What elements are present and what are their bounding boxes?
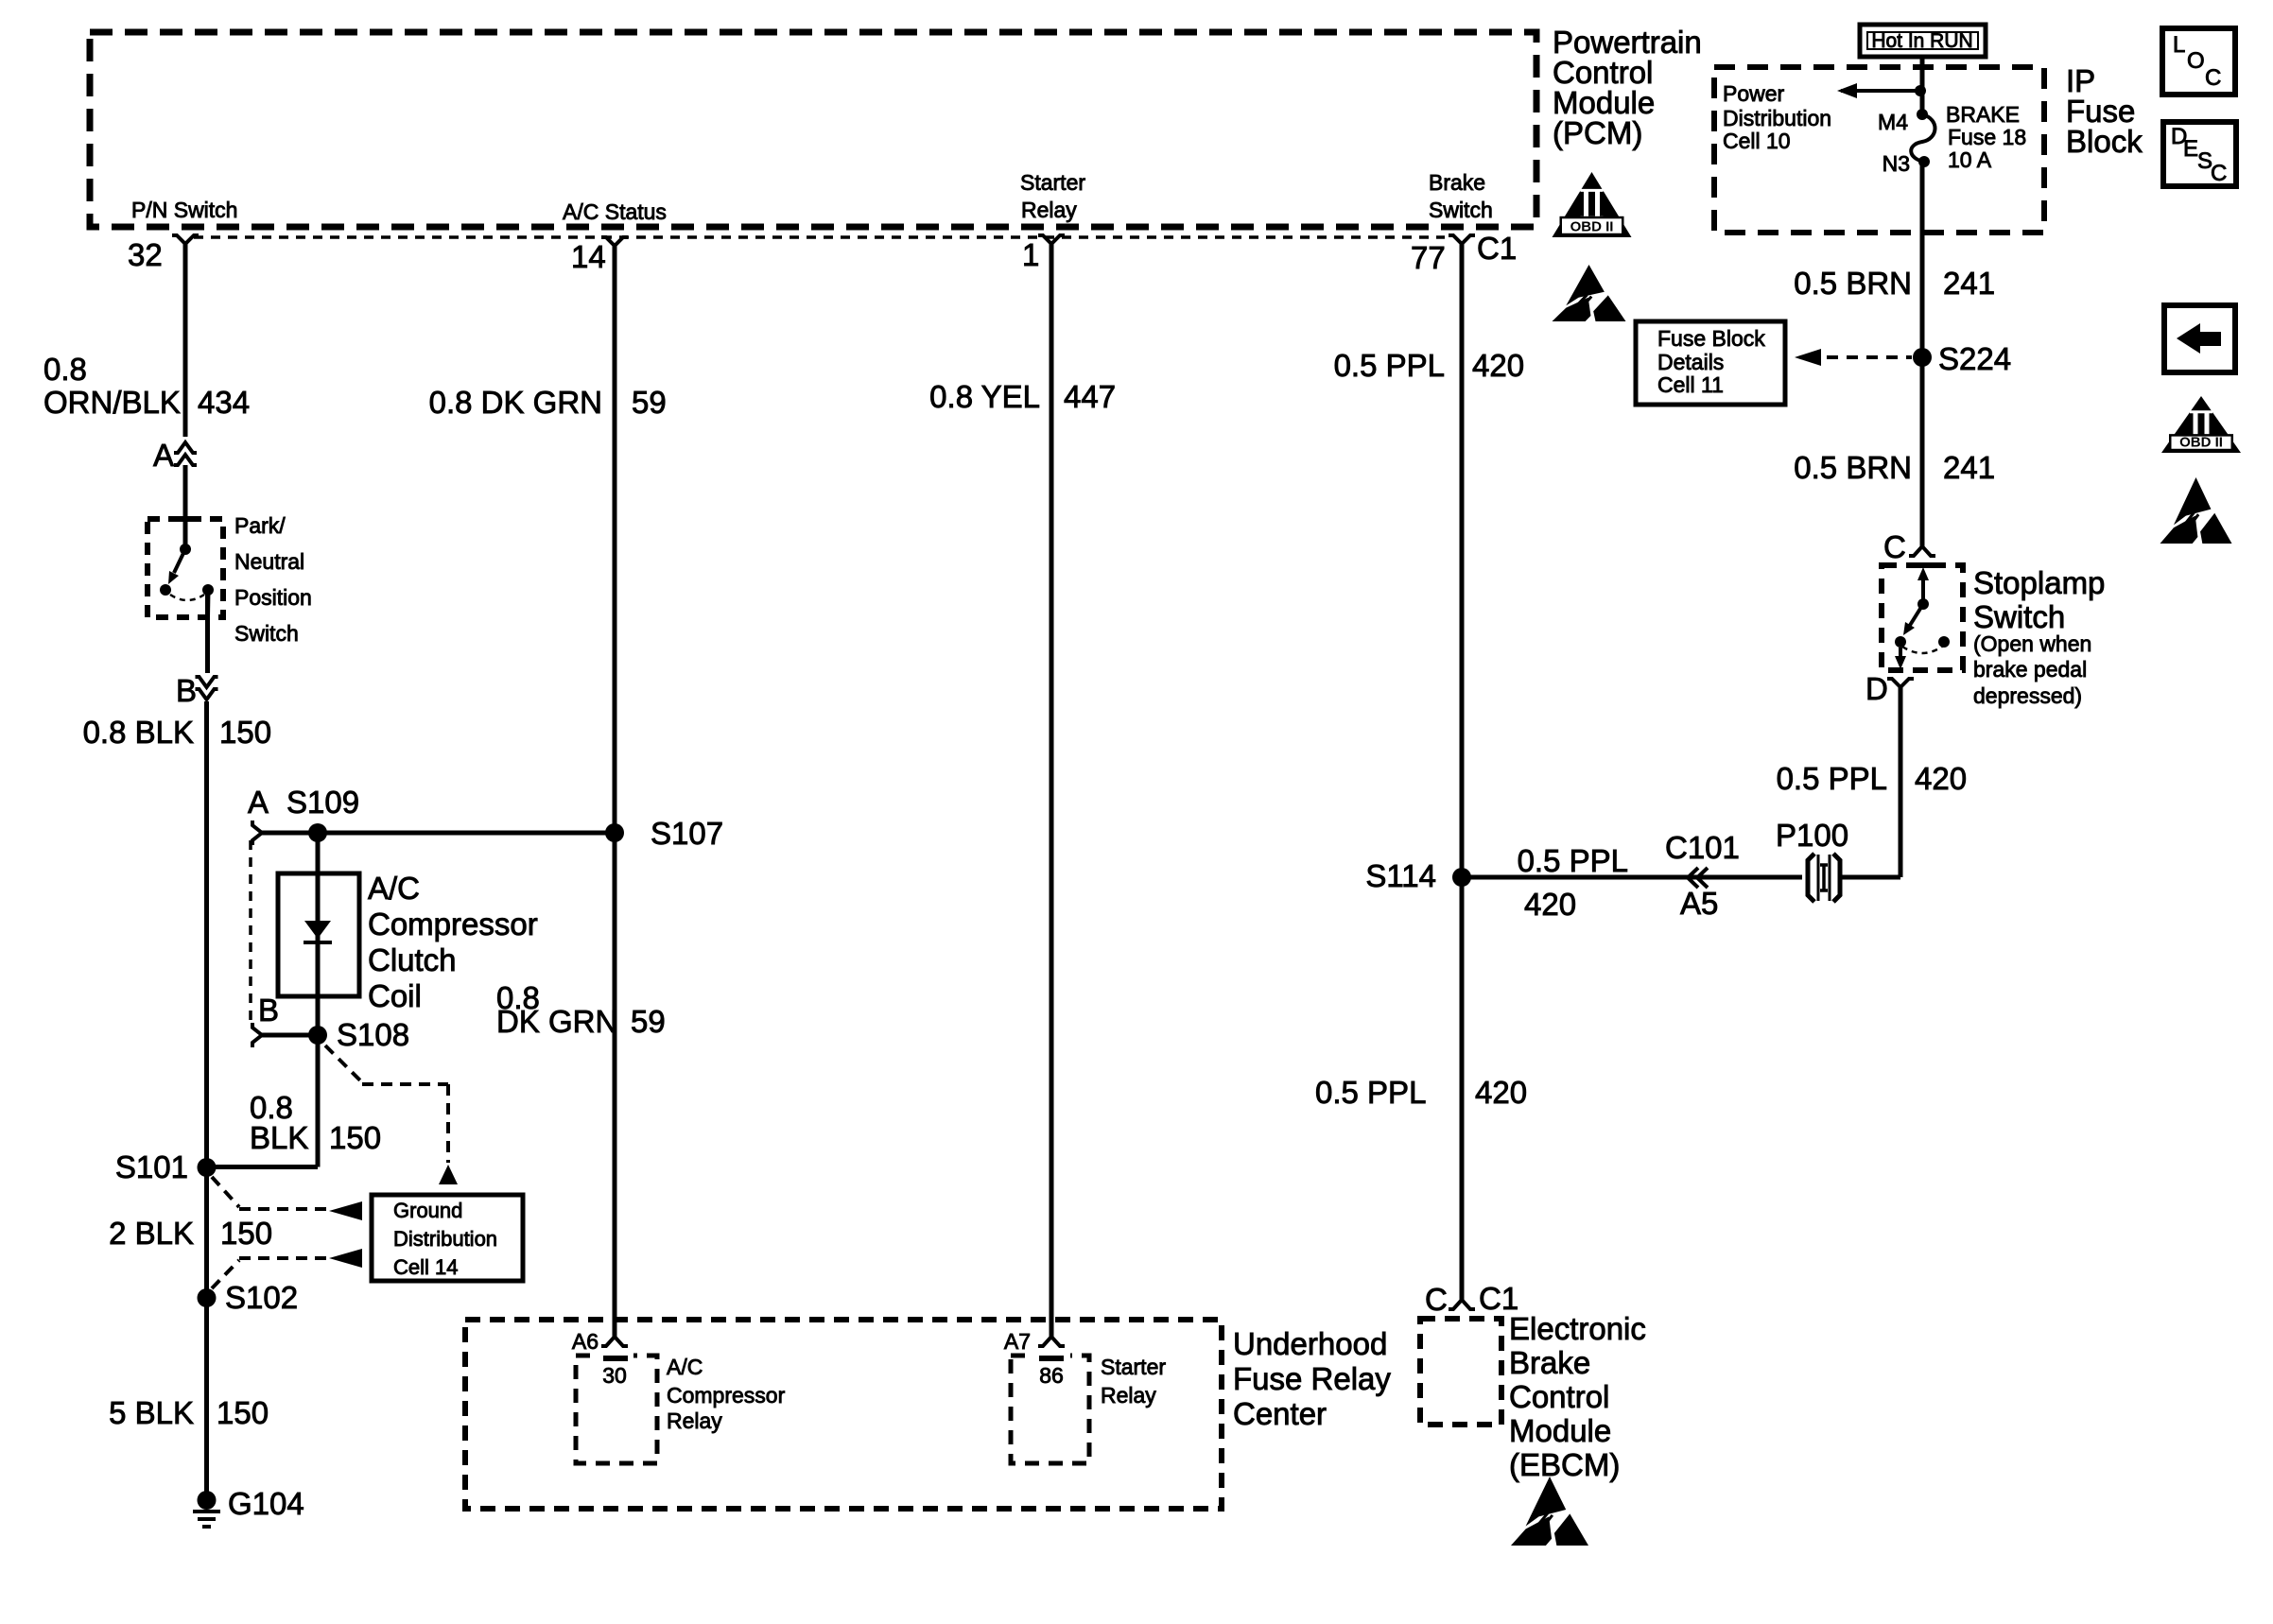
svg-text:S114: S114: [1365, 858, 1436, 893]
svg-text:D: D: [1865, 671, 1888, 706]
svg-text:Position: Position: [234, 585, 312, 610]
svg-text:Relay: Relay: [1021, 198, 1077, 222]
svg-text:Electronic: Electronic: [1509, 1311, 1646, 1346]
svg-text:30: 30: [602, 1363, 627, 1388]
svg-text:0.5 BRN: 0.5 BRN: [1794, 266, 1912, 301]
svg-text:N3: N3: [1883, 151, 1910, 176]
svg-text:P100: P100: [1776, 818, 1848, 853]
svg-text:0.5 PPL: 0.5 PPL: [1777, 761, 1887, 796]
svg-text:447: 447: [1064, 379, 1116, 414]
svg-text:S224: S224: [1938, 341, 2011, 376]
svg-text:G104: G104: [228, 1486, 304, 1521]
svg-text:BRAKE: BRAKE: [1946, 102, 2020, 127]
svg-text:Park/: Park/: [234, 513, 286, 538]
svg-text:2 BLK: 2 BLK: [109, 1216, 194, 1251]
svg-text:Fuse Relay: Fuse Relay: [1233, 1361, 1391, 1396]
svg-text:(PCM): (PCM): [1553, 115, 1642, 150]
svg-text:420: 420: [1472, 348, 1524, 383]
svg-text:S109: S109: [286, 785, 359, 820]
svg-text:Distribution: Distribution: [1723, 106, 1831, 130]
svg-text:150: 150: [217, 1395, 269, 1430]
svg-text:Cell 10: Cell 10: [1723, 129, 1791, 153]
svg-text:O: O: [2187, 48, 2205, 74]
svg-text:Relay: Relay: [667, 1408, 722, 1433]
svg-text:1: 1: [1022, 237, 1039, 272]
svg-text:S108: S108: [337, 1017, 409, 1052]
svg-text:B: B: [258, 993, 279, 1028]
svg-text:0.8 DK GRN: 0.8 DK GRN: [429, 385, 602, 420]
svg-text:A: A: [153, 438, 174, 473]
svg-text:Underhood: Underhood: [1233, 1326, 1387, 1361]
svg-text:BLK: BLK: [250, 1120, 308, 1155]
svg-text:C101: C101: [1665, 830, 1740, 865]
svg-text:Brake: Brake: [1429, 170, 1485, 195]
svg-text:5 BLK: 5 BLK: [109, 1395, 194, 1430]
svg-text:150: 150: [220, 1216, 272, 1251]
svg-text:brake pedal: brake pedal: [1973, 657, 2087, 682]
svg-text:241: 241: [1943, 266, 1995, 301]
svg-text:Center: Center: [1233, 1396, 1327, 1431]
svg-text:S107: S107: [651, 816, 723, 851]
svg-text:Switch: Switch: [1429, 198, 1493, 222]
svg-text:0.5 PPL: 0.5 PPL: [1334, 348, 1445, 383]
svg-text:A/C: A/C: [667, 1355, 703, 1379]
svg-text:Switch: Switch: [1973, 599, 2065, 634]
svg-text:M4: M4: [1878, 110, 1908, 134]
svg-text:Cell 11: Cell 11: [1657, 372, 1724, 397]
svg-text:Stoplamp: Stoplamp: [1973, 565, 2105, 600]
svg-text:32: 32: [128, 237, 163, 272]
svg-text:(EBCM): (EBCM): [1509, 1447, 1620, 1482]
svg-text:A/C Status: A/C Status: [563, 199, 667, 224]
svg-text:Cell 14: Cell 14: [393, 1255, 458, 1279]
svg-text:0.5 PPL: 0.5 PPL: [1518, 843, 1628, 878]
svg-text:Power: Power: [1723, 81, 1785, 106]
svg-text:Coil: Coil: [368, 978, 422, 1013]
svg-text:E: E: [2183, 136, 2198, 162]
svg-text:0.8: 0.8: [43, 352, 87, 387]
svg-text:Module: Module: [1509, 1413, 1611, 1448]
svg-text:Starter: Starter: [1020, 170, 1085, 195]
svg-text:0.8 YEL: 0.8 YEL: [929, 379, 1040, 414]
svg-text:0.5 PPL: 0.5 PPL: [1315, 1075, 1426, 1110]
svg-text:Relay: Relay: [1101, 1383, 1156, 1408]
svg-text:OBD II: OBD II: [1570, 219, 1614, 235]
svg-text:OBD II: OBD II: [2179, 435, 2223, 451]
svg-text:Control: Control: [1509, 1379, 1609, 1414]
svg-text:DK GRN: DK GRN: [496, 1004, 617, 1039]
svg-text:(Open when: (Open when: [1973, 631, 2091, 656]
svg-text:Compressor: Compressor: [368, 907, 538, 942]
svg-text:Details: Details: [1657, 350, 1724, 374]
svg-text:A7: A7: [1004, 1329, 1031, 1354]
svg-text:Block: Block: [2066, 124, 2143, 159]
svg-text:C1: C1: [1479, 1281, 1518, 1316]
svg-text:C: C: [2211, 161, 2227, 186]
svg-text:C1: C1: [1477, 231, 1517, 266]
svg-text:ORN/BLK: ORN/BLK: [43, 385, 181, 420]
svg-text:A/C: A/C: [368, 871, 420, 906]
svg-text:0.8 BLK: 0.8 BLK: [83, 715, 194, 750]
svg-text:A: A: [248, 785, 269, 820]
svg-text:Switch: Switch: [234, 621, 299, 646]
svg-text:Starter: Starter: [1101, 1355, 1166, 1379]
svg-text:86: 86: [1039, 1363, 1064, 1388]
svg-text:434: 434: [198, 385, 250, 420]
svg-text:0.5 BRN: 0.5 BRN: [1794, 450, 1912, 485]
svg-text:Clutch: Clutch: [368, 942, 457, 977]
svg-text:B: B: [176, 673, 197, 708]
svg-text:Neutral: Neutral: [234, 549, 304, 574]
svg-text:Distribution: Distribution: [393, 1227, 497, 1251]
svg-text:C: C: [2205, 65, 2221, 91]
svg-text:Hot In RUN: Hot In RUN: [1871, 30, 1972, 52]
svg-text:420: 420: [1475, 1075, 1527, 1110]
svg-text:150: 150: [329, 1120, 381, 1155]
svg-text:14: 14: [571, 239, 606, 274]
svg-text:150: 150: [219, 715, 271, 750]
svg-text:420: 420: [1524, 887, 1576, 922]
svg-text:241: 241: [1943, 450, 1995, 485]
svg-text:Ground: Ground: [393, 1199, 462, 1222]
svg-text:420: 420: [1915, 761, 1967, 796]
svg-text:S102: S102: [225, 1280, 298, 1315]
svg-text:depressed): depressed): [1973, 683, 2082, 708]
svg-text:L: L: [2173, 32, 2185, 58]
svg-text:Compressor: Compressor: [667, 1383, 786, 1408]
svg-text:59: 59: [632, 385, 667, 420]
svg-text:59: 59: [631, 1004, 666, 1039]
svg-text:S101: S101: [115, 1149, 188, 1184]
svg-text:Brake: Brake: [1509, 1345, 1590, 1380]
svg-text:A5: A5: [1680, 886, 1718, 921]
svg-text:C: C: [1883, 529, 1906, 564]
svg-text:A6: A6: [572, 1329, 599, 1354]
svg-text:Fuse Block: Fuse Block: [1657, 326, 1765, 351]
svg-text:10 A: 10 A: [1948, 147, 1992, 172]
svg-text:77: 77: [1411, 240, 1446, 275]
svg-text:Fuse 18: Fuse 18: [1948, 125, 2026, 149]
svg-text:P/N Switch: P/N Switch: [131, 198, 237, 222]
svg-text:C: C: [1425, 1282, 1448, 1317]
